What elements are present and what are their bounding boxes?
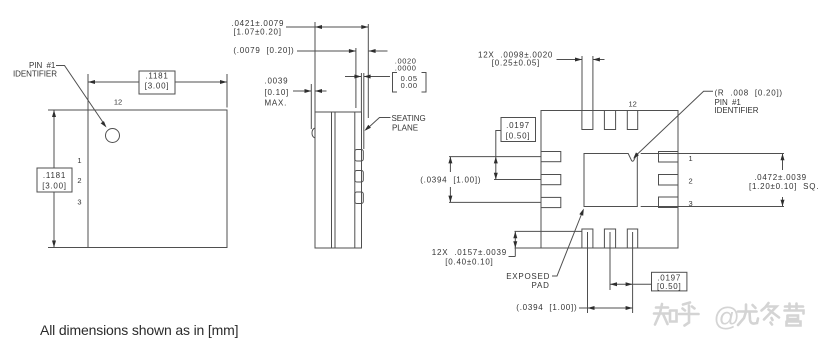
side terminal pad 2 [355,171,364,183]
arrowhead left [315,25,322,29]
extension line pad3 center [449,201,541,203]
glyph hu [679,303,699,326]
bottom view body outline [541,111,678,249]
arrowhead up [52,110,56,117]
dimension .0039 line left [293,90,311,92]
side terminal pad 1 [355,150,364,162]
dimension box .1181 [3.00] left [37,168,72,192]
top pad 11 [604,111,615,130]
svg-text:[3.00]: [3.00] [42,182,67,191]
arrowhead right-pointing [349,49,356,53]
top pad 10 [627,111,637,130]
arrowhead right-pointing [575,58,582,62]
svg-text:2: 2 [689,176,693,185]
dimension box .0197 [0.50] left [501,118,536,142]
leader SEATING PLANE [366,118,391,130]
svg-text:[0.50]: [0.50] [506,132,531,141]
side view inner line b [334,112,336,248]
svg-text:MAX.: MAX. [265,99,288,108]
svg-text:PAD: PAD [532,281,550,290]
left pad 1 [541,152,561,162]
side terminal pad 3 [355,192,364,204]
arrowhead left-pointing [593,58,600,62]
arrowhead right-pointing [626,306,633,310]
svg-text:EXPOSED: EXPOSED [506,272,550,281]
extension line exposed pad top [641,153,784,155]
bracket left [393,73,398,93]
svg-text:.0472±.0039: .0472±.0039 [754,173,807,182]
bottom pad b [604,229,615,248]
svg-text:[0.50]: [0.50] [657,282,682,291]
leader PIN #1 chamfer [637,91,713,154]
arrowhead right-pointing [354,75,361,79]
leader arrowhead [579,209,584,216]
leader box to dimension [496,131,501,180]
dimension line .1181 vertical [53,110,55,168]
svg-text:IDENTIFIER: IDENTIFIER [13,70,57,79]
arrowhead down [781,200,785,207]
side view terminal inner line [354,112,356,248]
dimension 12X .0157 vertical line [514,231,516,256]
svg-text:1: 1 [689,154,693,163]
svg-text:[0.40±0.10]: [0.40±0.10] [445,257,493,266]
svg-text:(R .008 [0.20]): (R .008 [0.20]) [715,89,783,98]
bottom pad a centerline [587,232,589,313]
svg-text:IDENTIFIER: IDENTIFIER [715,106,759,115]
bottom pad c [627,229,637,248]
extension line left-top [48,109,88,111]
extension line bump left [310,84,312,129]
arrowhead up [494,157,498,164]
arrowhead right [361,25,368,29]
glyph dong [762,303,780,325]
arrowhead down [448,196,452,203]
extension line bottom pad top [515,230,582,232]
svg-text:.0000: .0000 [395,64,417,73]
dimension line [579,307,633,309]
dimension box .0197 [0.50] bottom [652,272,687,291]
leader arrowhead [633,152,639,158]
svg-text:0.00: 0.00 [401,81,418,90]
arrowhead up [781,154,785,161]
extension line exposed pad bottom [641,206,784,208]
dimension .0197 [0.50] bottom line [610,283,652,285]
extension line pad1 center [449,156,541,158]
svg-text:All dimensions shown as in [mm: All dimensions shown as in [mm] [40,322,238,338]
dimension box .1181 [3.00] top [139,71,175,94]
right pad 2 [659,175,679,186]
svg-text:1: 1 [77,156,81,165]
arrowhead left-pointing [364,75,371,79]
top pad 12 [582,111,593,130]
svg-text:12: 12 [629,100,637,109]
arrowhead down [494,173,498,180]
side view pin1 bump arc [312,128,315,138]
arrowhead left [88,80,95,84]
leader arrowhead [364,125,371,131]
arrowhead left-pointing [588,306,595,310]
extension line bottom edge [515,247,542,249]
svg-text:@: @ [714,302,740,332]
svg-text:[1.20±0.10] SQ.: [1.20±0.10] SQ. [749,182,819,191]
arrowhead down [52,241,56,248]
pin 1 identifier circle [106,129,120,143]
arrowhead right-pointing [305,89,312,93]
bottom pad c centerline [632,232,634,313]
extension line pad edge right [592,56,594,110]
svg-text:[0.25±0.05]: [0.25±0.05] [492,58,540,67]
left pad 3 [541,197,561,207]
extension line top-right [226,74,228,108]
right pad 1 [659,152,679,163]
extension line left-bottom [48,247,88,249]
arrowhead left-pointing [315,89,322,93]
svg-text:12X .0157±.0039: 12X .0157±.0039 [432,248,507,257]
svg-text:.0039: .0039 [265,77,289,86]
svg-text:SEATING: SEATING [392,114,426,123]
bracket right [422,73,427,93]
extension line top-left [87,74,89,110]
arrowhead left-pointing [610,282,617,286]
leader PIN #1 to circle [56,66,105,125]
svg-text:.1181: .1181 [43,171,66,180]
svg-text:[1.07±0.20]: [1.07±0.20] [234,28,282,37]
side view body outline [315,112,362,248]
svg-text:12: 12 [114,98,122,107]
arrowhead up [448,157,452,164]
dimension .0472 vertical line [782,154,784,171]
extension line pad2 center [494,179,541,181]
svg-text:(.0079 [0.20]): (.0079 [0.20]) [233,46,294,55]
seating plane extension line [367,24,369,118]
watermark zhihu [654,302,804,332]
svg-text:[0.10]: [0.10] [265,88,290,97]
svg-text:.1181: .1181 [145,72,168,81]
bottom pad b centerline [609,232,611,290]
glyph you [738,305,758,326]
side view inner line a [331,112,333,248]
extension line body left top [314,22,316,112]
svg-text:3: 3 [77,197,81,206]
arrowhead right [220,80,227,84]
dimension .0079 line left [297,50,356,52]
svg-text:(.0394 [1.00]): (.0394 [1.00]) [516,303,577,312]
bottom pad a [582,229,593,248]
dimension 12X .0098 line left [557,59,583,61]
svg-text:[3.00]: [3.00] [145,82,170,91]
extension line lead left [355,48,357,108]
dimension .0421 line [286,26,368,28]
right pad 3 [659,197,679,208]
leader tick to text [509,256,516,258]
dimension .0039 line right [315,90,327,92]
leader arrowhead [101,121,107,127]
dimension .0020 line left [345,76,361,78]
exposed pad with pin1 chamfer notch [584,153,637,206]
arrowhead left-pointing [369,49,376,53]
dimension line vertical [449,157,451,172]
dimension .0079 line right [369,50,388,52]
dimension line .1181 horizontal [88,81,139,83]
top view body outline [88,110,227,248]
dimension 12X .0098 line right [593,59,605,61]
seating plane line [363,73,365,149]
extension line pad edge left [581,56,583,110]
svg-text:2: 2 [77,176,81,185]
svg-text:PLANE: PLANE [392,124,418,133]
arrowhead right-pointing [626,282,633,286]
dimension .0020 extension body edge [360,73,362,112]
arrowhead down [513,241,517,248]
leader EXPOSED PAD [552,211,583,277]
dimension .0020 line right [364,76,390,78]
arrowhead up [513,231,517,238]
svg-text:.0197: .0197 [506,121,530,130]
left pad 2 [541,175,561,185]
svg-text:(.0394 [1.00]): (.0394 [1.00]) [420,176,481,185]
glyph zhi [654,304,677,325]
glyph ying [785,304,804,326]
